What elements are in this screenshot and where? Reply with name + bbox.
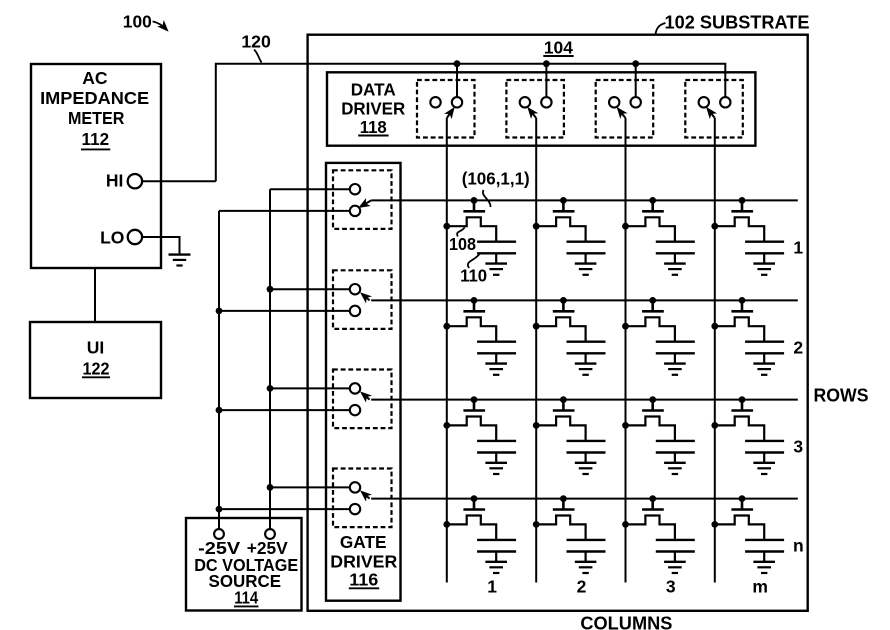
svg-text:n: n xyxy=(793,536,804,556)
substrate box 102 xyxy=(308,35,808,611)
+25V rail wire xyxy=(269,189,271,529)
gate driver switch 1 (dashed box with contacts) xyxy=(333,170,392,229)
junction dot on bus 104 at switch 3 xyxy=(632,60,639,67)
svg-text:108: 108 xyxy=(449,234,476,254)
pixel cell 106 row 2 col 2: TFT 108 + capacitor 110 + ground xyxy=(533,297,606,375)
gate driver box 116 xyxy=(326,163,401,601)
pixel cell 106 row 4 col 1: TFT 108 + capacitor 110 + ground xyxy=(443,495,516,573)
DC voltage source box 114 xyxy=(186,518,302,611)
pixel cell 106 row 3 col 2: TFT 108 + capacitor 110 + ground xyxy=(533,396,606,474)
wire: LO terminal to ground xyxy=(142,237,180,253)
svg-text:UI: UI xyxy=(87,338,105,358)
junction dot on bus 104 at switch 1 xyxy=(454,60,461,67)
wire: -25V rail to gate switch 3 bottom contact xyxy=(219,409,350,411)
junction dot on -25V rail row 4 xyxy=(216,506,223,513)
leader for 110 xyxy=(468,254,479,268)
pixel cell 106 row 2 col 3: TFT 108 + capacitor 110 + ground xyxy=(622,297,695,375)
wire: -25V rail to gate switch 4 bottom contact xyxy=(219,508,350,510)
svg-text:ROWS: ROWS xyxy=(814,385,869,406)
row 1 gate line xyxy=(371,199,798,201)
pixel cell 106 row 1 col 2: TFT 108 + capacitor 110 + ground xyxy=(533,197,606,275)
svg-text:m: m xyxy=(752,576,768,596)
gate driver switch 2 (dashed box with contacts) xyxy=(333,270,392,329)
svg-text:112: 112 xyxy=(82,129,110,149)
wire: meter to UI box xyxy=(94,268,96,322)
pixel cell 106 row 4 col 2: TFT 108 + capacitor 110 + ground xyxy=(533,495,606,573)
svg-text:DRIVER: DRIVER xyxy=(341,98,405,118)
column 4 data line xyxy=(714,118,716,583)
svg-text:1: 1 xyxy=(793,237,803,257)
pixel cell 106 row 1 col 3: TFT 108 + capacitor 110 + ground xyxy=(622,197,695,275)
junction dot on +25V rail row 2 xyxy=(267,286,274,293)
stub wire bus to data switch 2 contact xyxy=(545,64,547,97)
pixel cell 106 row 2 col 1: TFT 108 + capacitor 110 + ground xyxy=(443,297,516,375)
leader for 102 SUBSTRATE xyxy=(656,23,666,35)
svg-text:102 SUBSTRATE: 102 SUBSTRATE xyxy=(665,11,810,32)
column 1 data line xyxy=(446,118,448,583)
svg-text:GATE: GATE xyxy=(340,532,387,552)
wire 120: riser and top bus into data driver xyxy=(216,64,726,182)
AC impedance meter box 112 xyxy=(31,64,161,268)
row 2 gate line xyxy=(371,299,798,301)
-25V rail wire xyxy=(218,211,220,529)
wire: +25V rail to gate switch 3 top contact xyxy=(270,387,350,389)
wire: HI terminal to 120 bus riser xyxy=(142,180,216,182)
junction dot on +25V rail row 4 xyxy=(267,484,274,491)
svg-text:116: 116 xyxy=(349,570,378,590)
wire: +25V rail to gate switch 4 top contact xyxy=(270,486,350,488)
data driver switch 4 (dashed box with contacts) xyxy=(685,80,743,138)
data switch 3 pole arrow from column 3 xyxy=(618,109,625,118)
pixel cell 106 row 3 col 3: TFT 108 + capacitor 110 + ground xyxy=(622,396,695,474)
junction dot on -25V rail row 2 xyxy=(216,308,223,315)
column 2 data line xyxy=(535,118,537,583)
svg-text:3: 3 xyxy=(793,437,803,457)
junction dot on bus 104 at switch 2 xyxy=(543,60,550,67)
leader for (106,1,1) xyxy=(483,190,491,207)
data switch 1 pole arrow from column 1 xyxy=(447,109,453,118)
gate driver switch 3 (dashed box with contacts) xyxy=(333,370,392,429)
+25V terminal xyxy=(265,529,275,539)
pixel cell 106 row 1 col 4: TFT 108 + capacitor 110 + ground xyxy=(711,197,784,275)
data driver switch 2 (dashed box with contacts) xyxy=(506,80,564,138)
stub wire bus to data switch 1 contact xyxy=(456,64,458,97)
svg-text:3: 3 xyxy=(666,576,676,596)
pixel cell 106 row 1 col 1: TFT 108 + capacitor 110 + ground xyxy=(443,197,516,275)
pixel cell 106 row 3 col 4: TFT 108 + capacitor 110 + ground xyxy=(711,396,784,474)
stub wire bus to data switch 3 contact xyxy=(635,64,637,97)
gate switch 3 pole arrow from row 3 xyxy=(362,393,369,399)
pixel cell 106 row 4 col 3: TFT 108 + capacitor 110 + ground xyxy=(622,495,695,573)
leader line for 120 xyxy=(254,50,262,63)
gate switch 1 pole arrow from row 1 xyxy=(361,200,372,206)
svg-text:HI: HI xyxy=(106,171,124,191)
pixel cell 106 row 2 col 4: TFT 108 + capacitor 110 + ground xyxy=(711,297,784,375)
wire: +25V rail to gate switch 1 top contact xyxy=(270,188,350,190)
junction dot on -25V rail row 3 xyxy=(216,407,223,414)
svg-text:COLUMNS: COLUMNS xyxy=(580,613,672,630)
svg-text:(106,1,1): (106,1,1) xyxy=(462,169,530,189)
data switch 2 pole arrow from column 2 xyxy=(529,109,536,118)
svg-text:122: 122 xyxy=(83,358,110,378)
column 3 data line xyxy=(625,118,627,583)
UI box 122 xyxy=(30,322,161,398)
svg-text:118: 118 xyxy=(360,117,387,137)
svg-text:110: 110 xyxy=(460,266,487,286)
svg-text:120: 120 xyxy=(241,32,271,52)
svg-text:114: 114 xyxy=(234,587,258,607)
row 4 gate line xyxy=(371,498,798,500)
data switch 4 pole arrow from column 4 xyxy=(708,109,715,118)
leader arrow for 100 xyxy=(153,21,167,29)
svg-text:1: 1 xyxy=(487,576,497,596)
wire: -25V rail to gate switch 1 bottom contact xyxy=(219,210,350,212)
-25V terminal xyxy=(214,529,224,539)
svg-text:2: 2 xyxy=(793,337,803,357)
gate driver switch 4 (dashed box with contacts) xyxy=(333,469,392,528)
ground symbol at LO xyxy=(169,253,191,255)
pixel cell 106 row 4 col 4: TFT 108 + capacitor 110 + ground xyxy=(711,495,784,573)
svg-text:DATA: DATA xyxy=(351,79,396,99)
svg-text:100: 100 xyxy=(123,11,152,31)
junction dot on +25V rail row 3 xyxy=(267,385,274,392)
leader for 108 xyxy=(457,227,464,236)
gate switch 2 pole arrow from row 2 xyxy=(362,294,369,300)
wire: -25V rail to gate switch 2 bottom contact xyxy=(219,310,350,312)
svg-text:LO: LO xyxy=(100,228,124,248)
gate switch 4 pole arrow from row 4 xyxy=(362,492,369,498)
svg-text:METER: METER xyxy=(68,108,125,128)
pixel cell 106 row 3 col 1: TFT 108 + capacitor 110 + ground xyxy=(443,396,516,474)
data driver switch 3 (dashed box with contacts) xyxy=(596,80,654,138)
svg-text:IMPEDANCE: IMPEDANCE xyxy=(40,88,149,108)
wire: +25V rail to gate switch 2 top contact xyxy=(270,288,350,290)
data driver box 118 xyxy=(327,72,755,145)
svg-text:AC: AC xyxy=(82,68,108,88)
row 3 gate line xyxy=(371,399,798,401)
svg-text:104: 104 xyxy=(544,37,573,57)
svg-text:2: 2 xyxy=(577,576,587,596)
data driver switch 1 (dashed box with contacts) xyxy=(417,80,475,138)
